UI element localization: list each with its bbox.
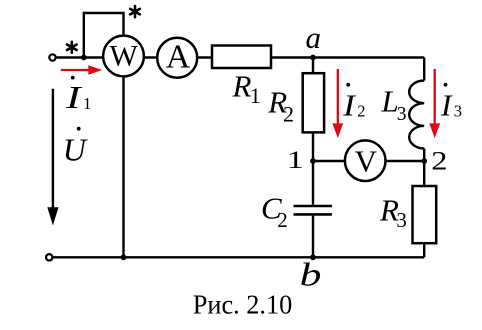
svg-text:Рис. 2.10: Рис. 2.10 [193, 290, 292, 320]
svg-text:R: R [232, 69, 252, 104]
svg-text:V: V [355, 143, 378, 178]
svg-text:b: b [300, 257, 322, 293]
svg-text:A: A [166, 39, 191, 76]
svg-text:1: 1 [83, 94, 92, 113]
svg-text:2: 2 [283, 102, 294, 127]
svg-text:1: 1 [287, 145, 304, 174]
svg-text:3: 3 [454, 102, 462, 121]
svg-text:3: 3 [396, 208, 407, 232]
svg-text:I: I [65, 79, 83, 115]
svg-text:1: 1 [250, 83, 261, 108]
svg-text:I: I [342, 87, 357, 122]
svg-text:I: I [440, 87, 453, 122]
svg-text:a: a [306, 20, 322, 55]
svg-text:2: 2 [357, 102, 365, 121]
svg-text:2: 2 [277, 208, 288, 232]
svg-text:3: 3 [397, 104, 407, 125]
svg-text:W: W [110, 40, 139, 73]
svg-text:U: U [63, 131, 88, 167]
svg-text:2: 2 [431, 147, 447, 175]
